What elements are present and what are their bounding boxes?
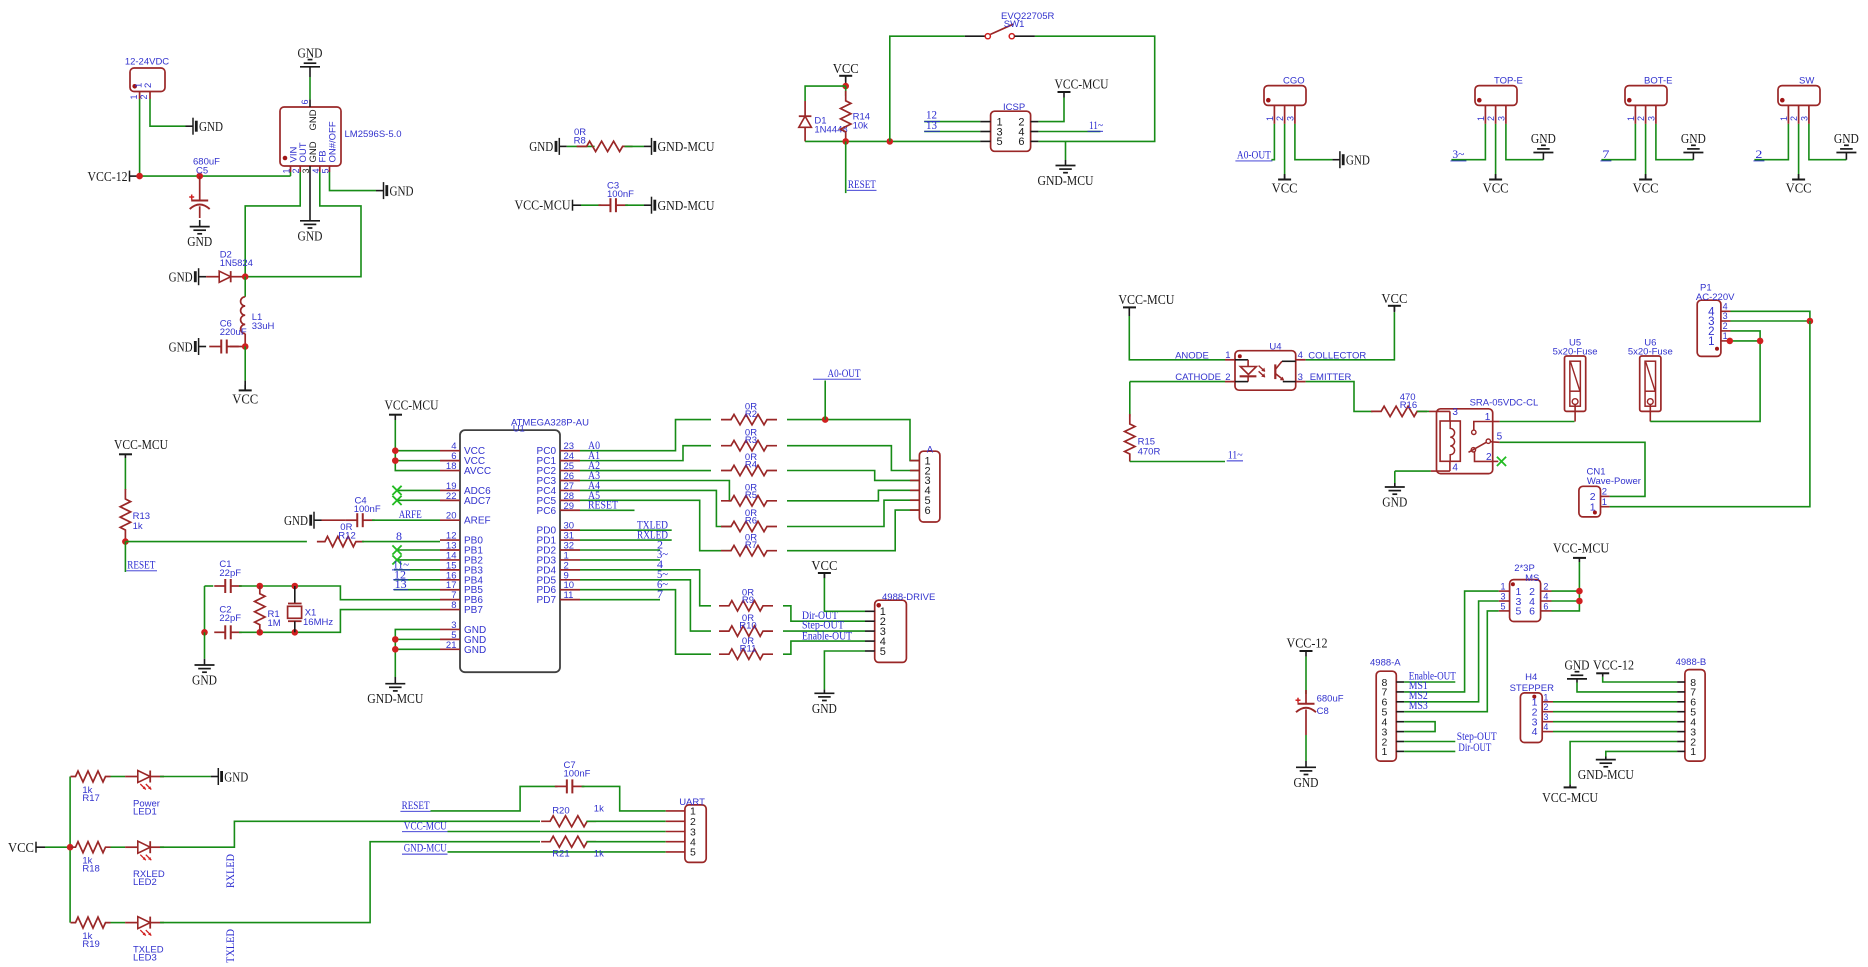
no-connect ADC7 <box>397 499 440 501</box>
svg-text:GND: GND <box>187 235 212 250</box>
net label 13 (PB5) <box>394 589 440 591</box>
wire LED rail vertical <box>69 777 71 923</box>
svg-text:R3: R3 <box>745 435 757 446</box>
svg-text:RESET: RESET <box>402 800 430 812</box>
relay contact pin 2 (no-connect) <box>1475 452 1493 461</box>
wire P1 pins3+4 to CN1 pin1 <box>1610 321 1810 507</box>
switch SW1 EVQ22705R <box>890 36 965 141</box>
svg-text:4: 4 <box>1543 592 1548 602</box>
svg-text:ARFE: ARFE <box>399 509 422 521</box>
pin 31 (PD1) <box>560 539 580 541</box>
svg-text:VCC: VCC <box>1381 292 1407 307</box>
connector BOT-E <box>1625 86 1667 106</box>
wire (pin3) <box>1506 124 1544 160</box>
pin 27 (PC4) <box>560 489 580 491</box>
svg-text:20: 20 <box>446 511 457 522</box>
svg-text:8: 8 <box>451 600 456 611</box>
svg-text:AC-220V: AC-220V <box>1696 292 1735 303</box>
svg-text:R19: R19 <box>82 939 99 950</box>
svg-text:3~: 3~ <box>1452 149 1464 161</box>
connector 12-24VDC <box>130 68 165 92</box>
svg-text:12-24VDC: 12-24VDC <box>125 57 169 68</box>
svg-text:7: 7 <box>657 589 663 601</box>
svg-text:ICSP: ICSP <box>1003 102 1025 113</box>
resistor R6 0R (A4) <box>580 490 731 526</box>
svg-text:1k: 1k <box>133 521 143 532</box>
fuse U5 5x20 <box>1565 356 1586 411</box>
svg-text:1: 1 <box>1626 116 1636 121</box>
svg-text:GND: GND <box>390 184 414 199</box>
svg-text:2: 2 <box>1723 321 1728 331</box>
wire <box>587 820 666 822</box>
net port VCC (pin2) <box>1284 176 1286 180</box>
LED LED1 Power <box>111 776 126 778</box>
svg-text:21: 21 <box>446 640 457 651</box>
svg-text:13: 13 <box>926 120 937 132</box>
pin 7 (PB6) <box>440 599 460 601</box>
net port VCC-MCU (4988-B pin2) <box>1570 742 1677 785</box>
pin 25 (PC2) <box>560 470 580 472</box>
crystal X1 16MHz <box>294 586 296 604</box>
svg-text:33uH: 33uH <box>252 321 275 332</box>
svg-text:C5: C5 <box>196 166 208 177</box>
svg-text:MS: MS <box>1525 573 1539 584</box>
wire LED3 to R21 <box>160 842 540 923</box>
resistor R17 1k <box>71 771 111 782</box>
wire <box>160 776 211 778</box>
svg-text:R10: R10 <box>739 620 756 631</box>
svg-text:22pF: 22pF <box>219 568 241 579</box>
pin 12 (PB0) <box>440 539 460 541</box>
svg-text:VCC-MCU: VCC-MCU <box>404 820 448 832</box>
pin 11 (PD7) <box>560 599 580 601</box>
svg-text:ON#/OFF: ON#/OFF <box>327 121 338 162</box>
svg-text:R11: R11 <box>740 643 757 654</box>
wire <box>362 541 440 543</box>
net port VCC-MCU (ICSP pin2) <box>1038 98 1064 122</box>
svg-text:Dir-OUT: Dir-OUT <box>1458 742 1491 754</box>
svg-text:R4: R4 <box>745 460 757 471</box>
resistor R15 470R <box>1129 382 1131 417</box>
svg-text:LM2596S-5.0: LM2596S-5.0 <box>345 129 402 140</box>
svg-text:1: 1 <box>1225 350 1230 361</box>
net label RXLED (rotated) <box>225 854 237 888</box>
svg-text:5: 5 <box>997 136 1003 148</box>
svg-text:R6: R6 <box>745 516 757 527</box>
capacitor C7 100nF <box>555 785 567 787</box>
svg-text:VCC-MCU: VCC-MCU <box>1553 542 1609 557</box>
svg-text:VCC-12: VCC-12 <box>1287 636 1328 651</box>
svg-text:2: 2 <box>1225 372 1230 383</box>
connector ICSP <box>991 111 1031 151</box>
LED LED3 TXLED <box>111 922 126 924</box>
pin 24 (PC1) <box>560 460 580 462</box>
svg-text:2: 2 <box>1789 116 1799 121</box>
pin 14 (PB2) <box>440 559 460 561</box>
resistor R19 1k <box>71 917 111 928</box>
svg-text:3: 3 <box>1496 116 1506 121</box>
svg-text:1: 1 <box>1543 692 1548 702</box>
svg-text:VCC-MCU: VCC-MCU <box>1542 791 1598 806</box>
wire <box>1417 410 1429 412</box>
wire <box>587 841 666 843</box>
wire pin5 ON#/OFF <box>330 172 377 191</box>
svg-text:SRA-05VDC-CL: SRA-05VDC-CL <box>1470 397 1539 408</box>
svg-text:1N5824: 1N5824 <box>220 258 253 269</box>
svg-text:R2: R2 <box>745 409 757 420</box>
wire MS pin5 to MS3 <box>1404 611 1499 712</box>
svg-text:R17: R17 <box>82 793 99 804</box>
capacitor C6 220uF <box>199 346 207 348</box>
wire <box>567 145 595 147</box>
wire C7 to UART pin1 <box>582 786 666 811</box>
net label 5~ (PD5) / resistor R10 0R <box>580 580 711 631</box>
net label 3~ (PD3) <box>580 559 660 561</box>
svg-text:Wave-Power: Wave-Power <box>1587 476 1641 487</box>
connector TOP-E <box>1475 86 1517 106</box>
wire GND-MCU to UART pin5 <box>448 851 666 853</box>
ground flag (pin5) <box>376 190 384 192</box>
svg-text:470R: 470R <box>1138 446 1161 457</box>
ground (4988-B pin7) <box>1577 683 1677 692</box>
net label 6~ (PD6) / resistor R11 0R <box>580 590 711 654</box>
svg-text:11: 11 <box>564 590 574 601</box>
net port VCC (4988-DRIVE pin1) <box>818 572 831 574</box>
wire pin2 OUT <box>245 172 300 277</box>
net port VCC (pin2) <box>1798 176 1800 180</box>
resistor R1 1M <box>255 586 265 633</box>
no-connect ADC6 <box>397 489 440 491</box>
svg-text:TXLED: TXLED <box>225 929 237 963</box>
connector A <box>919 451 940 522</box>
svg-text:GND: GND <box>464 645 486 656</box>
svg-text:6: 6 <box>1529 606 1535 618</box>
pin 3 (coil+) <box>1429 410 1450 412</box>
svg-text:VCC-MCU: VCC-MCU <box>385 399 439 414</box>
svg-text:2: 2 <box>1275 116 1285 121</box>
net label 12 (ICSP pin1) <box>924 121 980 123</box>
wire <box>625 145 644 147</box>
connector CN1 Wave-Power <box>1579 486 1601 517</box>
wire <box>239 610 440 633</box>
wire collector <box>1306 312 1395 360</box>
svg-text:VCC: VCC <box>833 62 859 77</box>
svg-text:VCC: VCC <box>1272 182 1298 197</box>
svg-text:LED1: LED1 <box>133 807 157 818</box>
resistor R8 0R <box>577 141 633 151</box>
wire relay pin1 to fuse U5 <box>1500 421 1575 423</box>
connector SW <box>1778 86 1820 106</box>
svg-text:R7: R7 <box>745 540 757 551</box>
svg-text:C8: C8 <box>1317 706 1329 717</box>
pin 10 (PD6) <box>560 589 580 591</box>
ground (pin3) <box>300 220 320 222</box>
svg-text:1: 1 <box>1382 746 1388 758</box>
pin 9 (PD5) <box>560 579 580 581</box>
svg-text:6: 6 <box>1018 136 1024 148</box>
svg-text:VCC-MCU: VCC-MCU <box>1055 78 1109 93</box>
LED LED2 RXLED <box>111 846 126 848</box>
svg-text:GND: GND <box>1346 154 1370 169</box>
wire <box>625 204 644 206</box>
resistor R3 0R (A1) <box>580 446 711 461</box>
svg-text:1: 1 <box>1690 746 1696 758</box>
svg-text:4988-B: 4988-B <box>1676 657 1707 668</box>
connector 4988-DRIVE <box>875 600 907 662</box>
net label RXLED (PD1) <box>580 539 672 541</box>
svg-text:3: 3 <box>1543 712 1548 722</box>
wire (pin3) <box>1295 124 1333 160</box>
wire <box>1305 657 1307 694</box>
svg-text:U1: U1 <box>513 424 525 435</box>
svg-text:2: 2 <box>1543 582 1548 592</box>
svg-text:A0-OUT: A0-OUT <box>1237 150 1271 162</box>
regulator U1 LM2596S-5.0 <box>280 107 341 166</box>
svg-text:R9: R9 <box>742 595 754 606</box>
ground flag (pin3) <box>1332 159 1340 161</box>
pin 13 (PB1) <box>440 549 460 551</box>
net label Step-OUT (pin2) <box>1404 741 1455 743</box>
wire / ground (relay pin4) <box>1395 470 1431 472</box>
svg-text:VCC: VCC <box>1786 182 1812 197</box>
svg-text:3: 3 <box>1298 372 1303 383</box>
svg-text:LED2: LED2 <box>133 877 157 888</box>
svg-text:GND: GND <box>298 229 323 244</box>
wire <box>581 204 601 206</box>
pin 2 (PD4) <box>560 569 580 571</box>
svg-text:4: 4 <box>1543 722 1548 732</box>
svg-text:VCC-MCU: VCC-MCU <box>1118 293 1174 308</box>
svg-text:2: 2 <box>1543 702 1548 712</box>
svg-text:GND: GND <box>199 120 223 135</box>
svg-text:5x20-Fuse: 5x20-Fuse <box>1628 347 1673 358</box>
svg-text:1: 1 <box>1500 582 1505 592</box>
net label RESET (PC6) <box>580 509 635 511</box>
svg-text:SW: SW <box>1799 76 1814 87</box>
resistor R2 0R (A0) <box>580 420 711 451</box>
wire relay pin5 to CN1 pin2 <box>1500 442 1645 496</box>
resistor R7 0R (A5) <box>580 500 731 550</box>
svg-text:A0-OUT: A0-OUT <box>828 368 861 380</box>
wire P1 pin2 <box>1731 331 1761 341</box>
net label 12 (PB4) <box>394 579 440 581</box>
svg-text:1: 1 <box>1779 116 1789 121</box>
pin 18 (AVCC) <box>440 470 460 472</box>
svg-text:VCC: VCC <box>8 841 34 856</box>
pin 23 (PC0) <box>560 450 580 452</box>
pin 19 (ADC6) <box>440 489 460 491</box>
wire (pin1) <box>1271 124 1274 160</box>
wire (pin3) <box>1809 124 1847 160</box>
ground GND-MCU (MCU) <box>394 677 396 684</box>
svg-text:R5: R5 <box>745 490 757 501</box>
wire H4 to 4988-B <box>1553 701 1677 703</box>
svg-text:TOP-E: TOP-E <box>1494 76 1523 87</box>
wire VCC rail to pins 4/6/18 <box>395 420 440 471</box>
wire Step-OUT <box>783 630 865 632</box>
svg-text:VCC: VCC <box>811 559 837 574</box>
svg-text:H4: H4 <box>1525 672 1537 683</box>
svg-text:VCC: VCC <box>1483 182 1509 197</box>
wire RESET to C7 <box>431 786 558 811</box>
svg-text:GND-MCU: GND-MCU <box>404 843 448 855</box>
pin 28 (PC5) <box>560 499 580 501</box>
svg-text:BOT-E: BOT-E <box>1644 76 1673 87</box>
wire VCC-12 rail <box>139 175 291 177</box>
svg-text:5: 5 <box>1516 606 1522 618</box>
ground flag GND-MCU (C3 right) <box>644 204 652 206</box>
pin 3 (GND) <box>440 628 460 630</box>
svg-text:R8: R8 <box>574 136 586 147</box>
svg-text:1: 1 <box>1590 501 1596 513</box>
svg-text:ADC7: ADC7 <box>464 496 491 507</box>
pin 32 (PD2) <box>560 549 580 551</box>
wire (pin3) <box>1656 124 1694 160</box>
MCU U1 ATMEGA328P-AU <box>460 430 560 672</box>
svg-text:3: 3 <box>1799 116 1809 121</box>
ground flag (12-24VDC pin2) <box>186 125 194 127</box>
relay armature <box>1471 448 1475 452</box>
wire (pin5) / ground <box>824 651 865 690</box>
fuse U6 5x20 <box>1640 356 1661 411</box>
ground flag (R8 left) <box>559 145 567 147</box>
svg-text:R20: R20 <box>552 806 569 817</box>
svg-text:R21: R21 <box>552 849 569 860</box>
svg-text:16MHz: 16MHz <box>303 617 333 628</box>
pin 29 (PC6) <box>560 509 580 511</box>
no-connect PB2 <box>397 559 440 561</box>
connector P1 AC-220V <box>1697 300 1721 356</box>
wire <box>150 99 186 126</box>
resistor R18 1k <box>71 842 111 853</box>
ground (crystal) <box>204 632 206 659</box>
wire A0 to pin1 <box>787 420 919 461</box>
svg-text:Enable-OUT: Enable-OUT <box>802 631 852 643</box>
ground (pin3) <box>1845 153 1847 160</box>
ground (pin3) <box>1542 153 1544 160</box>
svg-text:AREF: AREF <box>464 516 491 527</box>
wire Dir-OUT <box>783 606 865 621</box>
wire (pin1) <box>1601 124 1635 160</box>
ground (C5) <box>199 220 201 227</box>
svg-text:3: 3 <box>1452 407 1458 418</box>
svg-text:PB7: PB7 <box>464 605 483 616</box>
resistor R14 10k <box>845 86 847 96</box>
wire AREF <box>372 519 440 521</box>
svg-text:4988-DRIVE: 4988-DRIVE <box>882 592 935 603</box>
svg-text:100nF: 100nF <box>354 504 381 515</box>
svg-text:LED3: LED3 <box>133 953 157 964</box>
ground GND-MCU (ICSP pin6) <box>1065 141 1067 160</box>
capacitor C5 680uF <box>196 173 203 180</box>
diode D1 1N4448 <box>804 101 806 116</box>
svg-text:RXLED: RXLED <box>225 854 237 888</box>
svg-text:1: 1 <box>1476 116 1486 121</box>
svg-text:GND-MCU: GND-MCU <box>658 140 715 155</box>
wire U6 to P1 pin2 <box>1650 341 1760 421</box>
relay SRA-05VDC-CL <box>1437 409 1493 474</box>
svg-text:10k: 10k <box>853 121 869 132</box>
svg-text:1: 1 <box>1708 336 1714 348</box>
net port VCC (pin2) <box>1645 176 1647 180</box>
wire <box>1129 316 1225 360</box>
connector 4988-B <box>1685 670 1705 762</box>
svg-text:1k: 1k <box>594 849 604 860</box>
net label Enable-OUT (pin8) <box>1404 681 1455 683</box>
svg-text:GND: GND <box>192 674 217 689</box>
svg-text:GND-MCU: GND-MCU <box>658 199 715 214</box>
pin 1 (PD3) <box>560 559 580 561</box>
svg-text:11~: 11~ <box>1228 450 1243 462</box>
svg-text:GND: GND <box>1834 132 1859 147</box>
net label TXLED (rotated) <box>225 929 237 963</box>
inductor L1 33uH <box>244 277 246 297</box>
resistor R5 0R (A3) <box>580 480 731 500</box>
wire cathode <box>1130 381 1225 383</box>
svg-text:PC6: PC6 <box>537 506 557 517</box>
net label 2 (PD2) <box>580 549 660 551</box>
svg-text:4: 4 <box>1298 350 1303 361</box>
resistor R20 1k <box>541 816 596 827</box>
ground flag (LED1) <box>211 776 219 778</box>
svg-text:6: 6 <box>925 505 931 517</box>
svg-text:29: 29 <box>564 501 575 512</box>
net port VCC (buck output) <box>244 347 246 381</box>
ground (C8) <box>1305 735 1307 761</box>
svg-text:22pF: 22pF <box>219 613 241 624</box>
svg-text:GND: GND <box>169 340 193 355</box>
svg-text:RXLED: RXLED <box>637 529 668 541</box>
net label 11~ (PB3) <box>394 569 440 571</box>
svg-text:3: 3 <box>1723 311 1728 321</box>
pin 30 (PD0) <box>560 529 580 531</box>
no-connect PB1 <box>397 549 440 551</box>
ground GND-MCU (4988-B pin1) <box>1606 751 1677 756</box>
wire MS pin3 to MS2 <box>1404 601 1499 702</box>
svg-text:GND: GND <box>1681 132 1706 147</box>
svg-text:GND: GND <box>298 46 323 61</box>
svg-text:6: 6 <box>300 99 310 104</box>
capacitor C3 100nF <box>598 204 610 206</box>
svg-text:2: 2 <box>1636 116 1646 121</box>
svg-text:7: 7 <box>1602 149 1609 161</box>
pin 8 (PB7) <box>440 609 460 611</box>
svg-text:AVCC: AVCC <box>464 466 491 477</box>
svg-text:MS3: MS3 <box>1409 700 1428 712</box>
pin 4 (VCC) <box>440 450 460 452</box>
net port VCC-12 (4988-B pin8) <box>1603 677 1677 682</box>
pin 17 (PB5) <box>440 589 460 591</box>
svg-text:1k: 1k <box>594 804 604 815</box>
svg-text:R18: R18 <box>82 864 99 875</box>
svg-text:VCC-MCU: VCC-MCU <box>114 438 168 453</box>
svg-text:GND: GND <box>812 702 837 717</box>
diode D2 1N5824 <box>199 276 207 278</box>
wire pins 4-3 loop <box>1404 722 1435 732</box>
svg-text:VCC: VCC <box>232 392 258 407</box>
relay contact pin 1 <box>1472 430 1476 434</box>
wire (pin2) <box>1495 124 1497 176</box>
svg-text:GND: GND <box>529 140 553 155</box>
pin 20 (AREF) <box>440 519 460 521</box>
svg-text:CGO: CGO <box>1283 76 1305 87</box>
wire LED2 to R20 <box>160 821 540 847</box>
wire (ICSP pin6) <box>1038 140 1065 142</box>
connector 4988-A <box>1376 671 1396 761</box>
svg-text:2: 2 <box>1486 116 1496 121</box>
svg-text:5x20-Fuse: 5x20-Fuse <box>1553 347 1598 358</box>
svg-text:11~: 11~ <box>1089 120 1103 132</box>
